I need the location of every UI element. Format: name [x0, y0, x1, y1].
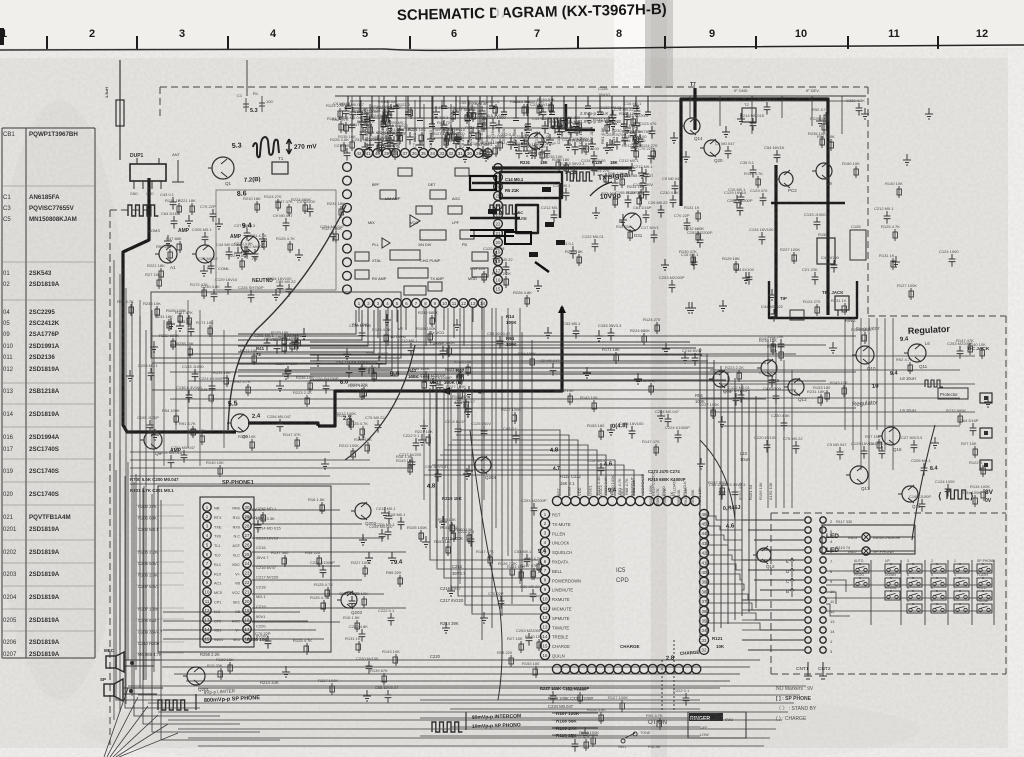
svg-text:7: 7: [534, 28, 540, 40]
wire: [459, 96, 461, 148]
wire: [791, 370, 793, 508]
wire: [405, 96, 407, 148]
ground: [657, 410, 665, 421]
ground: [387, 127, 395, 138]
ground: [585, 112, 593, 123]
ground: [606, 139, 614, 150]
svg-text:R129 18K: R129 18K: [271, 330, 289, 335]
wire: [238, 310, 380, 358]
capacitor C253: [737, 203, 744, 216]
wire: [396, 104, 398, 142]
transistor Q204: [475, 457, 491, 473]
ringer fill label: [689, 713, 723, 721]
svg-text:R231 18K: R231 18K: [627, 184, 645, 189]
resistor R125: [327, 587, 329, 599]
capacitor C75: [286, 284, 293, 297]
dashed frame left edge: [109, 255, 111, 745]
resistor R27: [974, 446, 976, 458]
resistor R153: [447, 544, 449, 556]
op-amp IC1 pin top row: [355, 149, 364, 158]
capacitor stub: [609, 96, 618, 121]
resistor R227: [514, 412, 516, 424]
wire to CNT: [760, 589, 804, 591]
capacitor C53: [573, 326, 580, 339]
resistor R139: [370, 124, 372, 136]
capacitor stub: [501, 96, 510, 115]
LED D7 circle: [862, 547, 870, 555]
wire: [252, 579, 362, 581]
resistor R172: [650, 383, 652, 395]
svg-text:R130 47K: R130 47K: [679, 249, 697, 254]
capacitor C253: [362, 142, 369, 155]
capacitor C70: [648, 151, 655, 164]
resistor R92: [345, 122, 347, 134]
wire to CNT: [754, 579, 804, 581]
resistor R227: [712, 407, 714, 419]
ground: [512, 140, 520, 150]
ground: [432, 106, 440, 117]
svg-text:R14: R14: [506, 314, 515, 319]
svg-text:AGC: AGC: [452, 197, 460, 201]
capacitor C220: [516, 146, 523, 159]
svg-text:R232 680K: R232 680K: [418, 310, 438, 315]
capacitor C230: [359, 629, 366, 642]
resistor R129: [284, 335, 286, 347]
capacitor C212: [386, 511, 393, 524]
svg-text:R61 6.8K: R61 6.8K: [600, 127, 605, 144]
IC1 internal block 3: [398, 168, 412, 176]
svg-text:TX AMP: TX AMP: [430, 277, 444, 281]
wire: [161, 500, 280, 740]
resistor R140: [780, 349, 782, 361]
transistor Q14: [684, 118, 700, 134]
capacitor C136: [490, 118, 497, 131]
capacitor stub: [645, 96, 654, 115]
table row separator: [2, 585, 95, 587]
key switch REDIAL: [885, 591, 900, 600]
svg-text:C14 M0.1: C14 M0.1: [505, 177, 524, 182]
capacitor C21: [778, 339, 785, 352]
capacitor C124: [945, 484, 952, 497]
IC1 internal block 9: [428, 282, 442, 291]
dashed frame right upper edge: [867, 87, 869, 316]
wire: [116, 724, 168, 757]
wire: [162, 666, 750, 668]
capacitor C64: [719, 487, 726, 500]
wire: [440, 455, 606, 496]
capacitor C230: [856, 103, 863, 116]
svg-text:C71 16: C71 16: [490, 130, 495, 144]
capacitor C214: [375, 135, 382, 148]
svg-text:C220 6V100: C220 6V100: [530, 102, 553, 107]
capacitor C205: [385, 527, 392, 540]
wire: [310, 367, 714, 369]
ground: [595, 330, 603, 341]
transistor Q15: [761, 360, 777, 376]
LED D5 circle: [862, 533, 870, 541]
resistor R143: [843, 385, 845, 397]
wire: [130, 475, 330, 477]
capacitor C214: [750, 118, 757, 131]
wire: [892, 318, 894, 470]
capacitor C123: [769, 375, 776, 388]
wire: [170, 371, 856, 373]
resistor R54: [425, 371, 427, 383]
ground: [737, 113, 745, 124]
R1 100 stub: [261, 96, 263, 112]
IC1 internal block 4: [455, 168, 469, 176]
capacitor C254: [350, 107, 357, 120]
transistor D31: [623, 213, 641, 231]
resistor R212: [592, 735, 594, 747]
capacitor C124: [496, 120, 503, 133]
ground: [365, 552, 373, 563]
IC4 box: [200, 497, 254, 647]
resistor R91: [373, 370, 375, 382]
IC1 internal block 5: [420, 230, 446, 240]
ground: [697, 458, 705, 469]
resistor R231: [640, 189, 642, 201]
ground: [361, 108, 369, 119]
wire: [709, 526, 742, 530]
svg-text:C52 16V10: C52 16V10: [578, 123, 583, 144]
capacitor C44: [879, 446, 886, 459]
resistor R221: [191, 203, 193, 215]
wire: [252, 523, 362, 525]
resistor R232: [172, 338, 174, 350]
resistor R153: [535, 666, 537, 678]
wire: [252, 607, 406, 609]
resistor R232: [959, 413, 961, 425]
capacitor C4: [831, 260, 838, 273]
resistor R212: [349, 416, 351, 428]
resistor R126: [538, 104, 540, 116]
wire: [152, 362, 766, 364]
wire: [310, 347, 696, 349]
wire: [238, 310, 356, 334]
resistor R212: [495, 145, 497, 157]
resistor R140: [981, 347, 983, 359]
key switch AUTO: [854, 564, 869, 573]
wire: [472, 388, 541, 614]
resistor R91: [262, 512, 264, 524]
wire: [163, 320, 165, 466]
capacitor C134: [629, 426, 636, 439]
table row separator: [2, 261, 95, 263]
ground: [150, 341, 158, 352]
resistor R147: [188, 315, 190, 327]
capacitor C216: [692, 353, 699, 366]
wire: [367, 308, 369, 330]
svg-text:R153 180: R153 180: [587, 423, 605, 428]
ground: [463, 468, 471, 479]
capacitor C253: [697, 235, 704, 248]
wire to CNT: [742, 639, 804, 641]
transistor A3: [241, 236, 259, 254]
wire: [709, 555, 742, 560]
capacitor C195: [147, 420, 154, 433]
thick arrow down at VR1 riser: [558, 305, 566, 313]
ground: [234, 247, 242, 258]
wire: [709, 594, 748, 600]
capacitor C44: [396, 128, 403, 141]
svg-text:LPF: LPF: [452, 221, 460, 225]
ground: [164, 235, 172, 246]
capacitor C253: [364, 114, 371, 127]
capacitor stub: [489, 96, 498, 109]
capacitor C254: [277, 419, 284, 432]
capacitor C222: [508, 137, 515, 150]
capacitor C54: [455, 132, 462, 145]
wire to CNT: [748, 609, 804, 611]
capacitor C75: [793, 441, 800, 454]
wire: [477, 104, 479, 148]
resistor R131: [844, 303, 846, 315]
wire stub: [841, 96, 843, 134]
resistor R147: [655, 444, 657, 456]
IC1 internal block 6: [390, 250, 420, 260]
capacitor C35: [572, 739, 579, 752]
svg-text:PD: PD: [462, 243, 468, 247]
svg-text:C124 1000: C124 1000: [339, 591, 359, 596]
duplexer DUP1 box: [130, 164, 166, 181]
wire: [423, 308, 425, 500]
capacitor C9: [725, 146, 732, 159]
capacitor stub: [477, 96, 486, 127]
svg-text:C27 50V3.3: C27 50V3.3: [558, 120, 580, 125]
resistor R124: [384, 113, 386, 125]
ruler tick: [937, 36, 939, 49]
svg-text:100K: 100K: [506, 320, 517, 325]
resistor R227: [459, 389, 461, 401]
capacitor C220: [285, 366, 292, 379]
capacitor stub: [573, 96, 582, 127]
wire: [519, 308, 521, 584]
ruler tick: [318, 36, 320, 49]
capacitor C153: [732, 487, 739, 500]
svg-text:R223 2.2K: R223 2.2K: [492, 271, 511, 276]
C1 stub: [245, 98, 247, 112]
wire: [444, 450, 597, 496]
capacitor C123: [760, 193, 767, 206]
ground: [719, 300, 727, 311]
resistor R129: [735, 261, 737, 273]
resistor R237: [284, 555, 286, 567]
svg-text:R91 4.7K: R91 4.7K: [249, 507, 266, 512]
resistor R139: [383, 673, 385, 685]
capacitor C253: [531, 503, 538, 516]
wire: [134, 482, 220, 716]
resistor R59: [446, 132, 448, 144]
capacitor C55: [435, 469, 442, 482]
wire: [468, 100, 470, 142]
resistor R127: [579, 692, 581, 704]
resistor R231: [340, 206, 342, 218]
wire: [481, 308, 483, 330]
thick link IC1 right: [470, 183, 560, 218]
resistor R140: [538, 639, 540, 651]
ground: [588, 138, 596, 149]
ground: [176, 320, 184, 331]
capacitor stub: [429, 96, 438, 127]
svg-text:C4 6V100: C4 6V100: [821, 255, 840, 260]
ground: [167, 318, 175, 329]
resistor R54: [830, 139, 832, 151]
resistor R171: [253, 353, 255, 365]
resistor R127: [910, 288, 912, 300]
paper fold band: [614, 0, 650, 757]
capacitor C21: [344, 148, 351, 161]
resistor R212: [635, 148, 637, 160]
resistor R221: [428, 434, 430, 446]
waveform 10Vpp: [490, 205, 516, 214]
ground: [447, 585, 455, 596]
resistor R105: [420, 530, 422, 542]
svg-text:R210 18K: R210 18K: [565, 249, 583, 254]
table row separator: [2, 630, 95, 632]
svg-text:C195 J100P: C195 J100P: [366, 351, 388, 356]
svg-text:SCHEMATIC D: SCHEMATIC D: [397, 5, 501, 24]
key switch UP: [885, 564, 900, 573]
resistor R143: [409, 463, 411, 475]
wire: [131, 302, 133, 696]
svg-text:R153 180: R153 180: [552, 157, 570, 162]
wire: [450, 726, 700, 728]
ground: [608, 140, 616, 150]
resistor R237: [466, 112, 468, 124]
wire: [425, 308, 427, 346]
varistor box: [790, 310, 804, 320]
ground: [295, 249, 303, 260]
capacitor C230: [622, 133, 629, 146]
capacitor C43: [170, 197, 177, 210]
svg-text:R221 18K: R221 18K: [386, 127, 404, 132]
waveform 2.9Vpp talk: [548, 118, 574, 127]
ground: [482, 150, 490, 161]
resistor R54: [175, 413, 177, 425]
capacitor stub: [345, 96, 354, 109]
capacitor C70: [684, 218, 691, 231]
svg-text:R231: R231: [520, 160, 531, 165]
ground: [358, 116, 366, 127]
wire: [170, 344, 826, 346]
capacitor C16: [691, 257, 698, 270]
capacitor C20: [364, 112, 371, 125]
capacitor C64: [970, 423, 977, 436]
resistor R124: [495, 104, 497, 116]
ringer box: [688, 712, 746, 738]
wire: [420, 717, 700, 719]
annotation 270mV with arrow: [287, 139, 292, 154]
ground: [685, 302, 693, 313]
CNT ground stubs: [804, 662, 827, 679]
capacitor C253: [634, 118, 641, 131]
wire: [486, 96, 488, 142]
svg-text:C125 250V: C125 250V: [349, 359, 369, 364]
ruler tick: [496, 36, 498, 49]
capacitor C9: [343, 106, 350, 119]
resistor R235: [451, 522, 453, 534]
wire: [709, 516, 742, 520]
key switch 0: [931, 604, 946, 613]
resistor R171: [615, 352, 617, 364]
key switch #: [907, 604, 922, 613]
wire: [310, 360, 708, 362]
resistor R149: [757, 176, 759, 188]
ground: [282, 368, 290, 379]
dashed keypad box left edge: [770, 513, 772, 674]
ground: [416, 140, 424, 150]
capacitor C125: [359, 364, 366, 377]
capacitor C133: [814, 217, 821, 230]
wire: [709, 564, 742, 570]
capacitor C253: [391, 136, 398, 149]
thick stub at 566,130: [566, 104, 595, 130]
wire: [152, 335, 856, 337]
capacitor C44: [612, 178, 619, 191]
IC1 internal block 16: [448, 206, 462, 214]
resistor R224: [864, 332, 866, 344]
svg-text:R129: R129: [592, 160, 603, 165]
ground: [546, 134, 554, 145]
IC1 internal block 1: [380, 190, 396, 199]
capacitor C16: [563, 188, 570, 201]
resistor R210: [772, 343, 774, 355]
table row separator: [2, 608, 95, 610]
svg-text:R129 18K: R129 18K: [722, 256, 740, 261]
ground: [272, 289, 280, 300]
wire: [139, 316, 141, 688]
wire to CNT: [760, 629, 804, 631]
capacitor C44: [771, 309, 778, 322]
wire: [252, 593, 384, 595]
resistor R15: [629, 229, 631, 241]
wire: [360, 100, 362, 142]
dashed frame top-left corner: [110, 87, 160, 255]
ground: [524, 124, 532, 135]
capacitor stub: [381, 96, 390, 127]
IC1 internal block 10: [355, 252, 369, 261]
ground: [126, 370, 134, 381]
svg-text:MIC: MIC: [516, 211, 523, 215]
wire: [450, 708, 700, 710]
table row separator: [2, 458, 95, 460]
resistor R210: [256, 201, 258, 213]
capacitor C205: [202, 232, 209, 245]
capacitor C217: [409, 457, 416, 470]
wire: [130, 467, 410, 469]
wire: [344, 107, 640, 109]
wire: [310, 354, 702, 356]
resistor R27: [614, 196, 616, 208]
svg-text:10: 10: [795, 28, 807, 40]
svg-text:C9 M0.047: C9 M0.047: [245, 515, 265, 520]
capacitor C217: [294, 338, 301, 351]
svg-text:R224 680K: R224 680K: [630, 328, 650, 333]
wire: [432, 96, 434, 142]
capacitor C212: [408, 343, 415, 356]
resistor R171: [209, 325, 211, 337]
ground: [282, 666, 290, 677]
resistor R131: [358, 641, 360, 653]
wire: [252, 551, 406, 553]
wire: [424, 475, 643, 496]
capacitor C20: [530, 589, 537, 602]
capacitor C254: [181, 450, 188, 463]
resistor R223: [306, 395, 308, 407]
dark component: [542, 187, 551, 192]
resistor R134: [974, 495, 976, 507]
